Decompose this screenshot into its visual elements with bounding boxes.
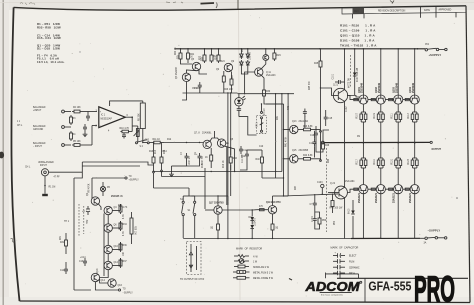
svg-text:C10: C10 xyxy=(259,146,264,148)
wire q21 emitter to output xyxy=(344,120,346,143)
svg-text:R36: R36 xyxy=(123,245,128,247)
svg-text:R24: R24 xyxy=(221,61,226,63)
wire q19 collector xyxy=(272,196,274,206)
svg-text:R5 10K: R5 10K xyxy=(73,141,81,143)
svg-text:C14: C14 xyxy=(60,270,65,272)
transistor Q8 xyxy=(217,139,225,147)
wire top supply rail xyxy=(175,48,426,50)
wire diodes join xyxy=(241,72,247,74)
wire col2 top xyxy=(380,49,382,95)
svg-text:C8 100P: C8 100P xyxy=(187,156,189,165)
svg-text:C13: C13 xyxy=(79,261,84,263)
wire q7 q8 emitters xyxy=(210,138,219,141)
wire mid vertical long xyxy=(227,93,229,205)
switch S1 contact a xyxy=(182,201,185,216)
wire opamp input + xyxy=(82,111,97,113)
title block divider xyxy=(364,278,366,301)
svg-text:R40: R40 xyxy=(288,105,290,110)
capacitor C17 xyxy=(309,131,317,158)
wire r40 connections xyxy=(247,149,262,151)
svg-text:UNBALANCED: UNBALANCED xyxy=(38,161,54,164)
wire d8 bottom xyxy=(251,229,253,239)
resistor R24 xyxy=(217,49,225,63)
svg-text:¼ W: ¼ W xyxy=(253,255,259,258)
svg-text:APPROVED: APPROVED xyxy=(439,9,452,12)
svg-text:R37: R37 xyxy=(123,261,128,263)
svg-text:2SA2121: 2SA2121 xyxy=(358,192,361,203)
legend resistor metal oxide xyxy=(233,276,274,280)
capacitor C101 xyxy=(332,73,344,84)
wire opamp feedback top xyxy=(110,101,143,106)
trimmer VR1 dashed box xyxy=(257,111,267,133)
svg-text:2SA2121: 2SA2121 xyxy=(375,192,378,203)
capacitor C6 xyxy=(122,133,126,139)
svg-text:1S2473: 1S2473 xyxy=(250,51,252,60)
svg-text:R31: R31 xyxy=(60,235,62,240)
svg-text:Q3 2SA966: Q3 2SA966 xyxy=(175,66,178,79)
wire col4 top xyxy=(414,49,416,95)
svg-text:C8 100: C8 100 xyxy=(262,109,264,117)
svg-text:TO: TO xyxy=(123,289,126,291)
wire r31 xyxy=(65,233,67,238)
wire q12 down xyxy=(100,270,109,278)
wire bases bus top bank xyxy=(347,96,359,98)
svg-text:R111: R111 xyxy=(391,113,393,119)
resistor R39 xyxy=(271,222,279,232)
transistor Q105 xyxy=(358,185,368,203)
svg-text:4.7K: 4.7K xyxy=(123,207,128,209)
svg-text:2SA966L: 2SA966L xyxy=(202,132,212,135)
svg-text:− INPUT: − INPUT xyxy=(33,146,42,148)
node output left connector xyxy=(321,141,324,144)
svg-text:TH101 ~ TH102 1 , R A: TH101 ~ TH102 1 , R A xyxy=(340,44,377,48)
diode D8 xyxy=(250,217,256,228)
svg-text:2SC5949: 2SC5949 xyxy=(395,82,398,93)
ADCOM logo xyxy=(304,280,361,296)
svg-text:R15: R15 xyxy=(202,163,204,168)
wire mid horizontal y196 xyxy=(192,195,218,197)
resistor R1 shunt xyxy=(44,176,55,194)
svg-text:CH L: CH L xyxy=(17,125,23,127)
dashed thermal line q17 xyxy=(326,148,328,232)
capacitor C10 xyxy=(144,140,150,142)
resistor R14 feedback divider xyxy=(160,143,167,166)
transistor Q21 driver xyxy=(333,85,348,103)
svg-text:R13: R13 xyxy=(155,149,157,154)
wire cluster joins xyxy=(314,208,316,216)
transistor Q107 xyxy=(393,185,403,203)
svg-text:3A: 3A xyxy=(424,241,427,244)
wire q11 out right xyxy=(264,98,284,104)
svg-text:Q 11: Q 11 xyxy=(266,72,272,74)
svg-text:Q 21: Q 21 xyxy=(333,85,339,87)
capacitor C5 xyxy=(194,82,202,90)
wire to Q7 base xyxy=(164,142,203,144)
transistor Q15 xyxy=(290,150,309,163)
emitter resistor pair R111 R112 xyxy=(391,105,401,143)
resistor R21 xyxy=(187,49,195,61)
wire output line xyxy=(324,141,430,143)
svg-text:R29: R29 xyxy=(276,55,281,57)
svg-text:R107: R107 xyxy=(357,112,359,118)
svg-text:VR 1: VR 1 xyxy=(257,122,259,128)
wire bases bus bottom bank xyxy=(348,189,359,192)
capacitor C13 xyxy=(79,258,87,266)
capacitor C15 xyxy=(324,110,333,126)
wire q17 q19 bases link xyxy=(222,209,252,211)
wire mid horizontal y171 xyxy=(153,171,282,173)
wire c7 c9 bottoms xyxy=(187,161,200,166)
resistor R48 xyxy=(330,194,344,210)
svg-text:R38 10K: R38 10K xyxy=(134,226,136,235)
wire vertical x227.9 to rail xyxy=(227,196,229,239)
resistor R29 xyxy=(273,49,281,61)
legend cap elect xyxy=(333,253,357,258)
transistor Q106 xyxy=(375,185,385,203)
wire r46 link xyxy=(316,142,323,152)
resistor R50 xyxy=(318,216,327,226)
svg-text:R40: R40 xyxy=(256,159,261,161)
svg-text:C17: C17 xyxy=(309,143,314,145)
svg-text:R8 470K: R8 470K xyxy=(89,183,91,192)
resistor R45 xyxy=(314,49,322,69)
resistor R4 xyxy=(70,131,77,141)
capacitor C16 xyxy=(310,126,318,142)
svg-text:NE5532AP: NE5532AP xyxy=(101,118,113,121)
resistor R35 xyxy=(211,222,220,232)
legend cap ceramic xyxy=(333,265,360,269)
node output terminal xyxy=(430,141,432,143)
svg-text:R41 470K: R41 470K xyxy=(286,136,288,147)
capacitor C105 xyxy=(313,216,317,224)
svg-text:R46: R46 xyxy=(328,158,330,163)
title block bottom line xyxy=(337,277,468,279)
svg-text:R41: R41 xyxy=(277,115,279,120)
transistor Q16 xyxy=(108,279,123,287)
svg-text:REV: REV xyxy=(354,11,359,13)
wire q17 emitter xyxy=(217,214,219,222)
fuse F1 switch xyxy=(425,42,447,51)
transistor Q19 xyxy=(266,201,281,214)
blob left edge xyxy=(0,152,4,159)
capacitor C2 xyxy=(86,113,90,121)
svg-text:TH2: TH2 xyxy=(87,219,89,224)
svg-text:BALANCED: BALANCED xyxy=(33,142,46,145)
wire trimmer top xyxy=(261,104,263,111)
resistor R104 base xyxy=(405,99,409,101)
lamp LA1 xyxy=(100,182,110,196)
legend mark of capacitor xyxy=(331,247,360,276)
handwriting top-left xyxy=(20,3,35,5)
svg-text:C103: C103 xyxy=(317,182,323,184)
wire q19 emitter xyxy=(272,214,274,222)
emitter resistor pair R107 R108 xyxy=(357,105,367,143)
wire y188 run xyxy=(154,187,190,189)
wire s1 tops xyxy=(182,196,184,201)
transistor Q11 xyxy=(255,68,277,77)
svg-text:1S2473: 1S2473 xyxy=(255,217,257,226)
wire q5 xyxy=(181,61,193,64)
node main signal xyxy=(136,142,138,144)
wire q22 base xyxy=(328,192,335,194)
svg-text:R9 20K: R9 20K xyxy=(139,113,141,121)
transistor Q102 xyxy=(375,82,385,104)
wire q3 q5 link xyxy=(187,70,197,73)
legend cap mica xyxy=(333,271,355,275)
svg-text:BALANCED: BALANCED xyxy=(33,125,46,128)
emitter resistor pair bottom R121 xyxy=(391,143,401,184)
resistor R110 base xyxy=(354,188,358,190)
svg-text:R32: R32 xyxy=(118,205,123,207)
speck xyxy=(456,197,458,199)
wire q21 collector to rail xyxy=(344,49,346,90)
switch S1 contact b xyxy=(188,201,196,216)
transistor Q101 xyxy=(358,82,368,104)
node connector j103 xyxy=(321,184,324,187)
diode D9 xyxy=(348,205,355,222)
svg-text:Q17 2SC4793: Q17 2SC4793 xyxy=(209,202,224,205)
svg-text:Q 22: Q 22 xyxy=(330,183,336,185)
svg-text:C15~ C24 1/2W: C15~ C24 1/2W xyxy=(37,36,61,40)
svg-text:2SA2121: 2SA2121 xyxy=(409,192,412,203)
svg-text:+C10: +C10 xyxy=(144,140,150,142)
wire q8 base bias xyxy=(226,142,228,144)
svg-text:Q101 ~ Q110 1 , R A: Q101 ~ Q110 1 , R A xyxy=(340,34,375,38)
svg-text:R46: R46 xyxy=(325,145,330,147)
diode D1 xyxy=(240,49,244,59)
title block strip xyxy=(342,6,466,19)
svg-text:R30: R30 xyxy=(266,91,271,93)
svg-text:10K: 10K xyxy=(123,251,125,256)
svg-text:47 PF: 47 PF xyxy=(54,176,61,178)
svg-text:R50: R50 xyxy=(334,220,336,225)
resistor R30 xyxy=(263,88,271,98)
svg-text:TO OUTPUT OF CH R: TO OUTPUT OF CH R xyxy=(180,278,204,281)
wire to +supply tap xyxy=(92,177,125,179)
svg-text:DATE: DATE xyxy=(424,9,430,12)
svg-text:2SA2121: 2SA2121 xyxy=(393,192,396,203)
svg-text:R45 330: R45 330 xyxy=(309,81,311,90)
capacitor C3 xyxy=(83,124,87,132)
wire s1 bottoms xyxy=(182,216,184,238)
ground second stage xyxy=(169,166,174,177)
transistor Q10b xyxy=(263,55,269,61)
thermistor TH1 dashed xyxy=(64,204,84,236)
diode D7 xyxy=(249,210,255,221)
transistor Q4 xyxy=(104,206,117,214)
emitter resistor pair R109 R110 xyxy=(374,105,384,143)
svg-text:R119: R119 xyxy=(374,158,376,164)
resistor R23 xyxy=(210,49,218,63)
wire q14 bottom out xyxy=(95,282,118,290)
wire mid bus emitters xyxy=(183,92,238,94)
resistor R40 xyxy=(256,150,264,172)
wire vertical C xyxy=(287,94,289,196)
emitter resistor pair R113 R114 xyxy=(408,105,418,143)
svg-text:2SC5949: 2SC5949 xyxy=(412,82,415,93)
capacitor C12 xyxy=(241,150,249,166)
wire mid junction vertical xyxy=(320,131,322,160)
svg-text:R22: R22 xyxy=(200,55,202,60)
capacitor C104 xyxy=(310,194,317,208)
svg-text:R16 1K: R16 1K xyxy=(223,160,225,168)
legend resistor 1/4W xyxy=(234,255,259,259)
svg-text:−SUPPLY: −SUPPLY xyxy=(428,229,441,233)
border frame top xyxy=(14,6,466,10)
sheet outer edge xyxy=(2,0,4,305)
svg-text:+C14: +C14 xyxy=(80,257,86,259)
transistor Q12 xyxy=(104,261,119,269)
wire base feed vertical xyxy=(283,104,285,196)
resistor R101 base xyxy=(354,99,358,101)
legend cap film xyxy=(333,259,354,263)
resistor R37b base xyxy=(260,209,265,211)
resistor R11 xyxy=(149,139,164,144)
svg-text:C101: C101 xyxy=(332,73,334,79)
svg-text:CH L: CH L xyxy=(25,167,31,169)
transistor Q5 xyxy=(191,59,201,71)
wire q19 collector to right xyxy=(273,195,289,197)
resistor R102 base xyxy=(371,99,375,101)
svg-text:BALANCED: BALANCED xyxy=(33,106,46,109)
capacitor C11 parallel xyxy=(239,146,248,154)
transistor Q22 driver xyxy=(330,180,355,199)
wire q2 links xyxy=(91,196,93,199)
legend resistor 1W xyxy=(234,259,258,264)
svg-text:INPUT: INPUT xyxy=(40,165,47,167)
svg-text:OUTPUT: OUTPUT xyxy=(432,149,442,151)
wire c12 bottom xyxy=(240,166,247,170)
resistor R111b base xyxy=(371,188,375,190)
svg-text:+SUPPLY: +SUPPLY xyxy=(429,53,442,57)
svg-text:R14: R14 xyxy=(164,149,166,154)
svg-text:GROUND: GROUND xyxy=(33,129,44,131)
resistor R22 xyxy=(200,49,207,63)
wire led to trimmer xyxy=(239,117,257,135)
resistor R103 base xyxy=(389,99,393,101)
wire q21 base from r45 xyxy=(321,88,334,96)
resistor R16 xyxy=(229,147,237,165)
wire q15 base xyxy=(284,158,290,160)
svg-text:D1 ~ D18 1/2W: D1 ~ D18 1/2W xyxy=(37,46,60,50)
svg-text:2SA1494: 2SA1494 xyxy=(345,180,355,183)
svg-text:2SC5949: 2SC5949 xyxy=(361,82,364,93)
svg-text:R49 100 1W: R49 100 1W xyxy=(330,208,344,210)
svg-text:2SA1443: 2SA1443 xyxy=(266,74,276,77)
svg-text:2SC5949: 2SC5949 xyxy=(378,82,381,93)
LED D6 xyxy=(235,94,246,106)
unbalanced input jack J2 xyxy=(41,169,82,179)
svg-text:R12: R12 xyxy=(167,139,172,141)
border frame right xyxy=(466,6,470,303)
switch S2 xyxy=(147,142,149,144)
svg-text:C11 47P: C11 47P xyxy=(242,154,244,163)
svg-text:Q10: Q10 xyxy=(114,246,119,248)
svg-text:2SC3858: 2SC3858 xyxy=(299,150,309,152)
trimmer pot xyxy=(132,126,139,143)
capacitor C12b xyxy=(82,206,90,215)
emitter resistor pair bottom R117 xyxy=(357,143,367,184)
scattered value labels xyxy=(60,47,361,273)
transistor Q7 xyxy=(194,132,212,149)
wire q8 emitter down xyxy=(225,146,235,171)
resistor R33 xyxy=(119,204,128,214)
wire q16 links xyxy=(100,279,108,283)
resistor R9 feedback xyxy=(139,101,146,143)
svg-text:R10 4.7K: R10 4.7K xyxy=(120,128,130,130)
svg-text:C15: C15 xyxy=(328,118,333,120)
svg-text:ADCOM: ADCOM xyxy=(304,280,360,294)
svg-text:R45: R45 xyxy=(314,63,319,65)
wire bases bus across top bank xyxy=(347,96,359,100)
wire protection column spine xyxy=(107,215,109,224)
diode D2 xyxy=(240,60,244,72)
svg-text:R113: R113 xyxy=(408,112,410,118)
transistor Q104 xyxy=(409,82,419,104)
svg-text:Q15: Q15 xyxy=(292,150,297,152)
crease mark top xyxy=(237,0,239,10)
wire vertical A xyxy=(275,94,277,178)
transistor Q10 xyxy=(104,245,119,253)
border frame left xyxy=(11,7,19,301)
transistor Q2 xyxy=(87,192,123,205)
resistor R27 xyxy=(230,72,233,88)
transistor Q6 xyxy=(104,224,117,232)
wire q22 collector down xyxy=(344,198,346,239)
wire divider bottoms xyxy=(153,165,155,171)
svg-text:C102: C102 xyxy=(346,106,348,112)
svg-text:2SC945 ×6: 2SC945 ×6 xyxy=(111,195,123,198)
svg-text:R52~ R58 1/2W: R52~ R58 1/2W xyxy=(37,25,61,29)
svg-text:+INPUT: +INPUT xyxy=(33,110,42,112)
resistor R37 xyxy=(119,258,127,268)
wire q21 emitter down xyxy=(344,101,346,120)
resistor R5 xyxy=(72,141,82,146)
transistor Q108 xyxy=(409,185,419,203)
svg-text:the music components: the music components xyxy=(321,293,344,296)
wire col1 top xyxy=(362,49,364,95)
resistor R38 tall xyxy=(130,212,136,240)
svg-text:R44 6.8K: R44 6.8K xyxy=(303,155,313,157)
wire q3 collector down xyxy=(182,93,187,100)
wire q11 base to mirror xyxy=(245,72,255,74)
emitter resistor pair bottom R119 xyxy=(374,143,384,184)
wire line y162 xyxy=(82,162,153,165)
diode D3 xyxy=(246,49,252,60)
svg-text:MARK OF RESISTOR: MARK OF RESISTOR xyxy=(236,248,262,251)
svg-text:R47: R47 xyxy=(295,185,297,190)
wire line y166 xyxy=(81,162,83,166)
ground pad input xyxy=(42,194,48,196)
fuse F2 switch xyxy=(420,237,447,245)
wire q11 emitter down xyxy=(262,75,265,88)
svg-text:GFA-555: GFA-555 xyxy=(368,278,411,293)
svg-text:R123: R123 xyxy=(408,158,410,164)
wire second stage bottoms xyxy=(210,163,212,168)
svg-text:4.7K: 4.7K xyxy=(123,231,125,236)
svg-text:TH 1: TH 1 xyxy=(64,221,70,223)
diode D4 xyxy=(246,60,250,72)
wire col3 top xyxy=(397,49,399,95)
svg-text:C104: C104 xyxy=(312,216,314,222)
wire signal segment xyxy=(143,142,148,144)
input section labels xyxy=(17,106,54,169)
wire d9 joins xyxy=(352,222,354,239)
legend mark of resistor xyxy=(233,248,274,281)
resistor R20 xyxy=(176,49,183,61)
resistor R113b base xyxy=(405,188,409,190)
capacitor under LED xyxy=(237,106,241,117)
